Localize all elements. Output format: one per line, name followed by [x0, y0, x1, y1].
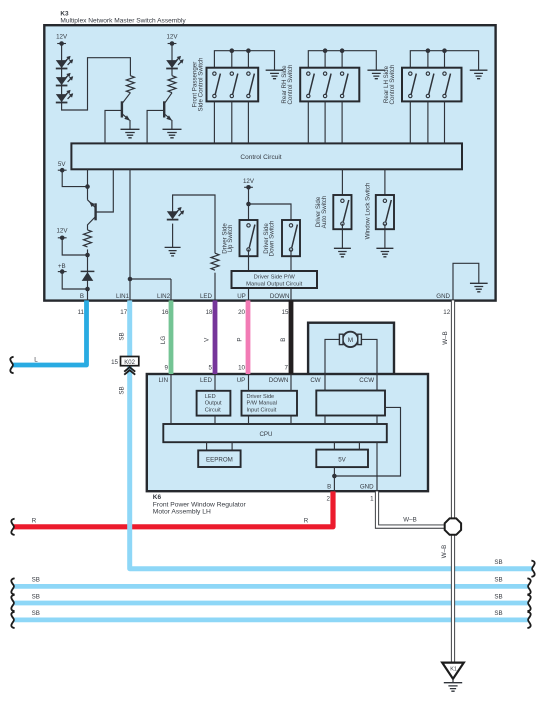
svg-text:Manual Output Circuit: Manual Output Circuit: [246, 281, 302, 287]
svg-text:9: 9: [165, 364, 169, 371]
svg-text:CPU: CPU: [259, 431, 272, 438]
svg-text:Window Lock Switch: Window Lock Switch: [364, 182, 371, 239]
svg-text:M: M: [348, 337, 353, 344]
svg-text:CCW: CCW: [359, 377, 374, 384]
svg-text:Control Switch: Control Switch: [287, 64, 294, 104]
svg-text:GND: GND: [436, 293, 450, 300]
svg-text:SB: SB: [494, 610, 502, 617]
svg-text:SB: SB: [119, 386, 126, 394]
svg-text:UP: UP: [237, 377, 246, 384]
svg-text:W–B: W–B: [403, 516, 416, 523]
svg-text:10: 10: [238, 364, 245, 371]
svg-text:SB: SB: [32, 593, 40, 600]
svg-text:18: 18: [206, 309, 213, 316]
svg-text:K02: K02: [124, 360, 135, 366]
svg-text:1: 1: [370, 495, 374, 502]
svg-text:12V: 12V: [56, 227, 68, 234]
svg-text:LIN2: LIN2: [157, 293, 171, 300]
svg-text:P/W Manual: P/W Manual: [247, 401, 277, 407]
svg-text:LIN: LIN: [158, 377, 168, 384]
svg-text:L: L: [34, 356, 38, 363]
svg-text:Down Switch: Down Switch: [269, 220, 276, 256]
svg-text:SB: SB: [32, 577, 40, 584]
svg-text:GND: GND: [360, 484, 374, 491]
svg-text:12V: 12V: [243, 178, 255, 185]
svg-text:B: B: [327, 484, 331, 491]
svg-text:K3: K3: [60, 10, 69, 17]
svg-text:17: 17: [120, 309, 127, 316]
svg-text:16: 16: [162, 309, 169, 316]
svg-text:Motor Assembly LH: Motor Assembly LH: [153, 509, 211, 516]
svg-text:SB: SB: [494, 593, 502, 600]
svg-text:Auto Switch: Auto Switch: [321, 195, 328, 228]
svg-text:Input Circuit: Input Circuit: [247, 407, 277, 413]
svg-text:15: 15: [282, 309, 289, 316]
svg-text:12V: 12V: [56, 34, 68, 41]
svg-text:LIN1: LIN1: [116, 293, 130, 300]
svg-text:R: R: [304, 517, 309, 524]
svg-text:SB: SB: [494, 577, 502, 584]
svg-text:Output: Output: [205, 401, 222, 407]
svg-text:Front Power Window Regulator: Front Power Window Regulator: [153, 501, 247, 508]
svg-text:B: B: [280, 338, 287, 342]
svg-text:DOWN: DOWN: [270, 293, 290, 300]
svg-text:2: 2: [327, 495, 331, 502]
svg-text:UP: UP: [237, 293, 246, 300]
svg-text:W–B: W–B: [442, 331, 449, 344]
svg-text:12: 12: [443, 309, 450, 316]
svg-text:Driver Side: Driver Side: [247, 394, 275, 400]
svg-text:5V: 5V: [338, 457, 346, 464]
svg-text:7: 7: [285, 364, 289, 371]
svg-text:Circuit: Circuit: [205, 407, 221, 413]
svg-text:LED: LED: [200, 293, 213, 300]
svg-text:SB: SB: [119, 332, 126, 340]
svg-text:20: 20: [238, 309, 245, 316]
svg-text:SB: SB: [494, 559, 502, 566]
svg-text:Control Switch: Control Switch: [389, 64, 396, 104]
svg-text:EEPROM: EEPROM: [206, 457, 233, 464]
svg-text:5: 5: [209, 364, 213, 371]
svg-text:P: P: [237, 337, 244, 341]
svg-text:Side Control Switch: Side Control Switch: [198, 57, 205, 112]
svg-text:DOWN: DOWN: [269, 377, 289, 384]
svg-text:LG: LG: [160, 336, 167, 344]
svg-text:LED: LED: [205, 394, 216, 400]
svg-text:SB: SB: [32, 610, 40, 617]
svg-text:Control Circuit: Control Circuit: [240, 154, 281, 161]
svg-text:+B: +B: [58, 263, 66, 270]
svg-text:Multiplex Network Master Switc: Multiplex Network Master Switch Assembly: [60, 17, 186, 24]
svg-text:12V: 12V: [166, 34, 178, 41]
svg-text:K1: K1: [450, 667, 457, 673]
svg-text:Driver Side P/W: Driver Side P/W: [254, 274, 296, 280]
svg-text:K6: K6: [153, 494, 162, 501]
svg-text:Up Switch: Up Switch: [227, 224, 234, 252]
svg-text:R: R: [32, 517, 37, 524]
svg-text:11: 11: [78, 309, 85, 316]
svg-text:5V: 5V: [58, 161, 66, 168]
svg-text:W–B: W–B: [441, 545, 448, 558]
svg-text:LED: LED: [200, 377, 213, 384]
svg-text:B: B: [80, 293, 84, 300]
svg-text:CW: CW: [310, 377, 320, 384]
svg-text:15: 15: [111, 359, 118, 366]
